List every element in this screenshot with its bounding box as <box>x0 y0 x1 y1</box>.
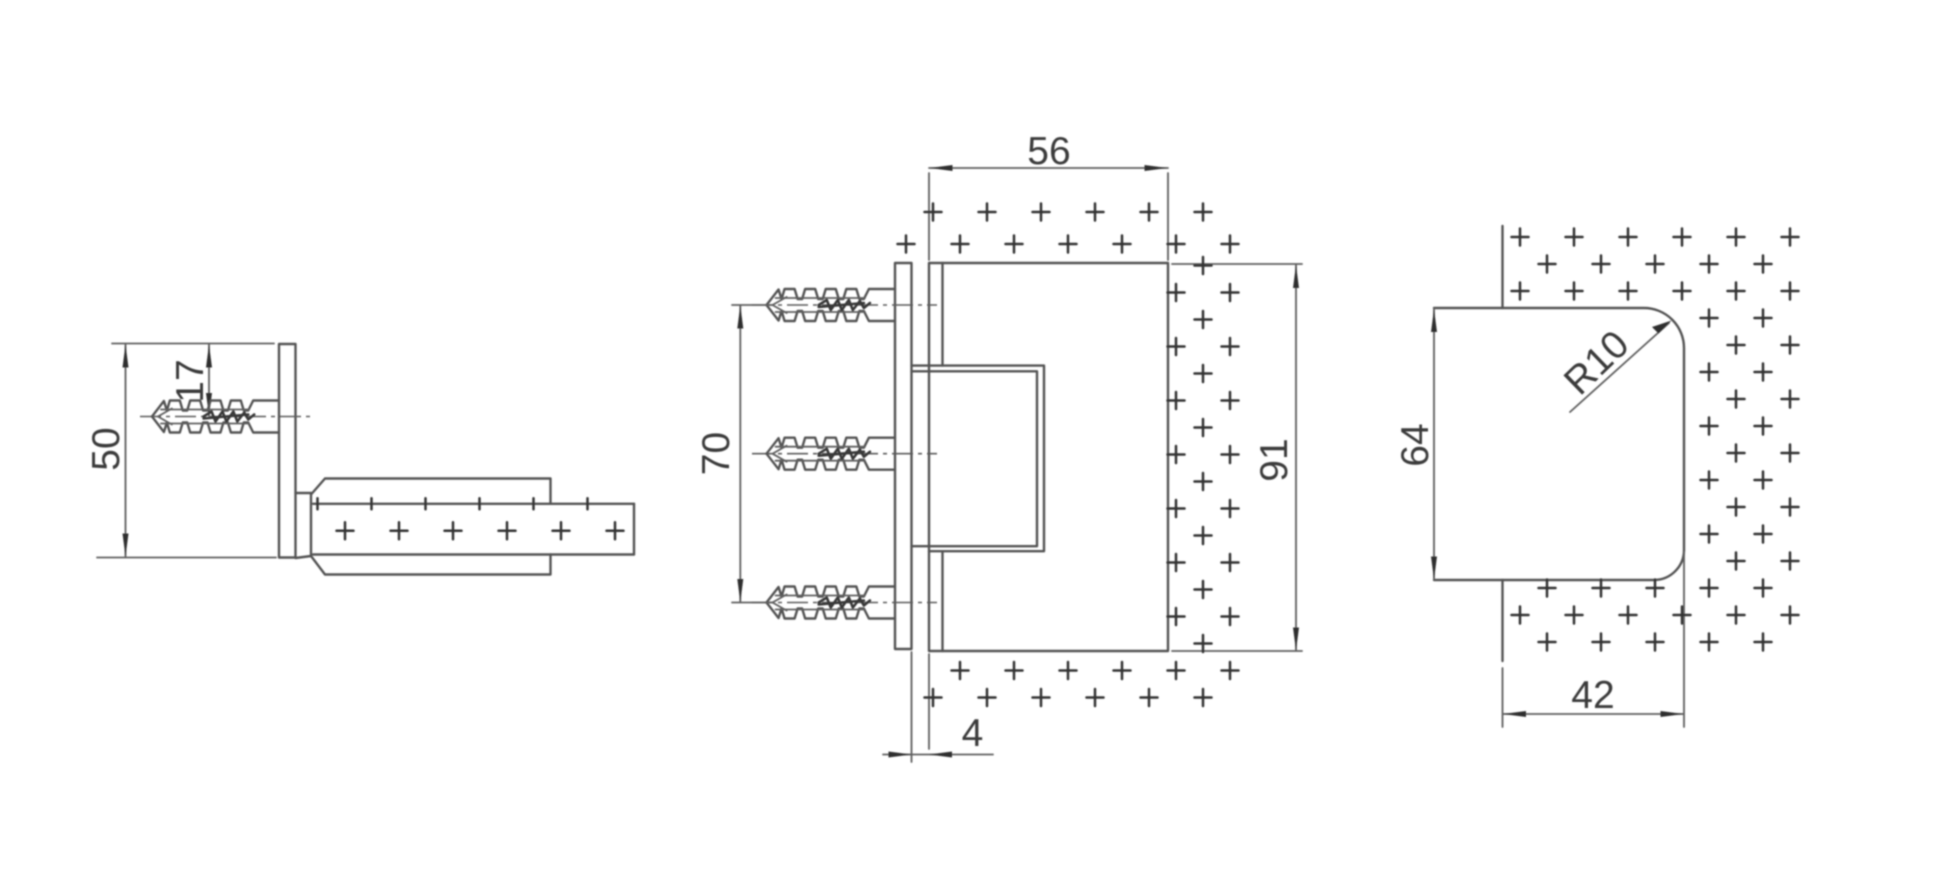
glass stipple plus marks <box>337 522 354 539</box>
dimension 70 extension bottom <box>732 602 772 604</box>
glass edge above clamp <box>1501 226 1503 308</box>
wall anchor screw (front view) <box>767 587 896 619</box>
dimension 56 line <box>929 167 1168 169</box>
dimension 91 extension bottom <box>1172 650 1302 652</box>
glass stipple (front view) <box>925 204 942 221</box>
hinge pivot connector bottom <box>296 556 312 558</box>
dimension 42 line <box>1503 713 1684 715</box>
anchor centerline <box>752 304 937 306</box>
svg-text:56: 56 <box>1027 130 1070 173</box>
recess square inner <box>912 371 1038 546</box>
left view: side elevation of wall-mount glass clamp <box>85 344 634 575</box>
glass edge line behind body <box>941 263 943 651</box>
glass edge below clamp <box>1501 580 1503 661</box>
wall anchor screw (left view) <box>152 401 279 433</box>
svg-text:50: 50 <box>85 427 128 470</box>
glass pane (side) top edge <box>313 503 634 505</box>
dimension 17 line <box>208 344 210 416</box>
wall plate front <box>895 263 912 649</box>
svg-text:42: 42 <box>1571 674 1614 717</box>
wall plate (side view) <box>279 344 296 558</box>
glass stipple (right view) <box>1512 229 1529 246</box>
svg-text:4: 4 <box>962 712 984 755</box>
svg-text:91: 91 <box>1253 438 1296 481</box>
dimension 4 extension right (glass face) <box>928 654 930 749</box>
svg-text:70: 70 <box>695 432 738 475</box>
dimension 4 extension left (wall face) <box>911 652 913 762</box>
clamp body outline (side) <box>311 479 551 575</box>
right view: top section of clamp on glass <box>1394 226 1799 727</box>
56 extension line left <box>928 173 930 260</box>
dimension 64 line <box>1433 309 1435 580</box>
anchor centerline <box>752 453 937 455</box>
dimension 50 extension line top <box>112 343 274 345</box>
dimension 50 extension line bottom <box>97 557 276 559</box>
wall anchor screw (front view) <box>767 438 896 470</box>
dimension 4 line with outside arrows <box>883 754 993 756</box>
recess square outer <box>912 366 1045 552</box>
dimension 70 extension top <box>732 304 772 306</box>
anchor centerline <box>140 416 312 418</box>
hinge pivot connector top <box>296 492 312 494</box>
dimension 42 extension left <box>1502 668 1504 727</box>
dimension 91 line <box>1295 265 1297 651</box>
svg-text:17: 17 <box>169 359 212 402</box>
clamp profile with R10 corners <box>1434 308 1684 580</box>
glass pane (side) right edge <box>633 504 635 555</box>
svg-text:64: 64 <box>1394 423 1437 466</box>
anchor centerline <box>752 602 937 604</box>
middle view: front elevation <box>695 130 1302 762</box>
wall anchor screw (front view) <box>767 289 896 321</box>
clamp body front outline <box>929 263 1168 651</box>
R10 leader line <box>1570 323 1669 412</box>
56 extension line right <box>1167 173 1169 260</box>
glass pane (side) bottom edge <box>313 553 634 555</box>
dimension 70 line <box>739 306 741 603</box>
dimension 50 line <box>125 344 127 557</box>
glass stipple ticks on top edge <box>316 498 319 509</box>
dimension 42 extension right <box>1683 552 1685 727</box>
dimension 91 extension top <box>1172 263 1302 265</box>
